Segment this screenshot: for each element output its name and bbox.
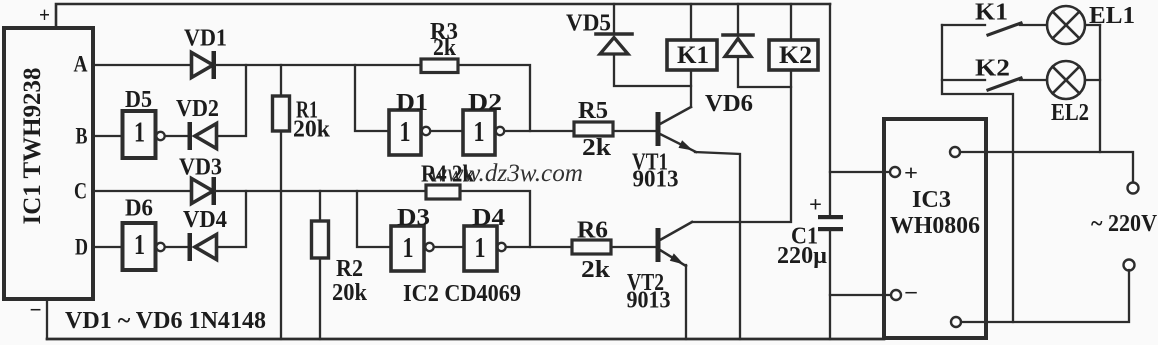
svg-text:D5: D5 xyxy=(125,87,152,113)
inverter D3 xyxy=(391,226,434,271)
svg-text:C: C xyxy=(74,179,87,204)
resistor R4 feedback xyxy=(426,185,460,199)
svg-text:B: B xyxy=(76,124,88,149)
diode VD6 xyxy=(723,4,791,87)
IC1 U1 TWH9238 box xyxy=(4,28,93,299)
svg-text:VD1: VD1 xyxy=(184,26,227,52)
wire IC3 top output to 220V top terminal xyxy=(960,152,1133,183)
svg-text:VD5: VD5 xyxy=(566,11,611,37)
wire D2 output to R5 xyxy=(505,130,575,132)
resistor R1 xyxy=(273,65,290,339)
terminal IC3 plus xyxy=(890,167,900,177)
resistor R6 xyxy=(572,240,611,254)
wire VT2 emitter down to bottom rail xyxy=(685,265,687,339)
switch K2 xyxy=(942,78,1047,90)
svg-text:WH0806: WH0806 xyxy=(890,213,980,239)
svg-text:1: 1 xyxy=(134,229,145,261)
diode VD3 xyxy=(192,177,217,205)
terminal 220V top xyxy=(1128,183,1139,194)
lamp EL1 xyxy=(1047,6,1085,44)
svg-text:1: 1 xyxy=(400,116,411,148)
terminal IC3 out bottom xyxy=(951,317,961,327)
wire R4 right down to D4 output xyxy=(460,191,530,247)
wire R5 to VT1 base xyxy=(613,130,656,132)
wire C1 node to IC3 minus terminal xyxy=(830,294,891,296)
resistor R2 xyxy=(312,191,329,339)
svg-text:VD3: VD3 xyxy=(179,155,222,181)
svg-text:9013: 9013 xyxy=(627,288,671,314)
svg-text:−: − xyxy=(904,280,918,305)
svg-text:1: 1 xyxy=(474,116,485,148)
svg-text:K1: K1 xyxy=(975,0,1008,26)
wire pin C to VD3 xyxy=(93,190,191,192)
svg-text:D3: D3 xyxy=(397,205,430,231)
svg-text:+: + xyxy=(39,2,50,27)
wire bottom ground rail xyxy=(47,338,884,341)
svg-text:VD4: VD4 xyxy=(183,207,227,233)
svg-text:2k: 2k xyxy=(581,257,611,283)
svg-text:www.dz3w.com: www.dz3w.com xyxy=(430,160,583,187)
svg-text:1: 1 xyxy=(475,232,486,264)
svg-text:20k: 20k xyxy=(293,117,331,143)
terminal IC3 minus xyxy=(891,290,901,300)
wire EL1 to lamp common xyxy=(1085,24,1100,26)
diode VD4 xyxy=(188,233,217,261)
wire pin B to D5 input xyxy=(93,135,122,137)
svg-text:−: − xyxy=(30,297,42,322)
wire top positive rail xyxy=(56,4,830,28)
svg-text:VD2: VD2 xyxy=(176,96,219,122)
wire line A down to D1 input xyxy=(355,65,389,131)
svg-text:2k: 2k xyxy=(582,135,612,161)
wire R3 right down to D2 output xyxy=(458,65,530,131)
inverter D2 xyxy=(463,110,504,155)
svg-text:K1: K1 xyxy=(677,42,709,69)
diode VD5 xyxy=(596,4,691,86)
svg-text:IC2 CD4069: IC2 CD4069 xyxy=(403,281,521,307)
svg-text:20k: 20k xyxy=(332,280,368,306)
svg-text:+: + xyxy=(809,192,822,217)
svg-text:9013: 9013 xyxy=(633,167,679,193)
wire switch common down to bottom output wire xyxy=(942,25,1013,322)
svg-text:EL2: EL2 xyxy=(1051,100,1089,126)
svg-text:220µ: 220µ xyxy=(777,243,827,269)
resistor R5 xyxy=(574,122,613,136)
IC3 WH0806 box xyxy=(884,119,986,338)
wire D1 to D2 xyxy=(431,130,464,132)
inverter D4 xyxy=(464,226,506,271)
wire D6 bubble to VD4 xyxy=(165,246,189,248)
wire EL2 to lamp common xyxy=(1085,79,1100,81)
svg-text:R6: R6 xyxy=(577,218,608,244)
svg-text:+: + xyxy=(904,160,918,185)
svg-text:1: 1 xyxy=(403,232,414,264)
wire R6 to VT2 base xyxy=(611,246,656,248)
transistor VT1 xyxy=(656,107,697,152)
svg-text:D6: D6 xyxy=(125,196,153,222)
switch K1 xyxy=(942,23,1047,35)
inverter D6 xyxy=(123,223,165,270)
relay coil K1 xyxy=(667,4,717,70)
wire pin D to D6 input xyxy=(93,246,122,248)
wire C1 node to IC3 plus terminal xyxy=(830,171,890,173)
transistor VT2 xyxy=(656,222,693,266)
diode VD2 xyxy=(188,122,217,150)
inverter D1 xyxy=(389,110,430,155)
wire node C line: VD3 cathode to R4 left xyxy=(215,190,426,192)
lamp EL2 xyxy=(1047,61,1085,99)
svg-text:D: D xyxy=(75,235,88,260)
wire lamp common down to IC3 top output wire xyxy=(1099,25,1101,152)
wire 220V bottom terminal to IC3 bottom output xyxy=(961,270,1129,322)
svg-text:EL1: EL1 xyxy=(1089,3,1135,29)
wire IC1 bottom pin to bottom rail xyxy=(46,299,48,339)
wire junction VD4 output up to line C xyxy=(217,191,246,247)
svg-text:D4: D4 xyxy=(472,205,505,231)
inverter D5 xyxy=(123,111,165,158)
wire VT1 emitter down to bottom rail xyxy=(695,152,740,339)
svg-text:K2: K2 xyxy=(779,42,812,69)
wire D3 to D4 xyxy=(434,246,464,248)
wire node A line: VD1 cathode to R3 left xyxy=(215,64,421,66)
svg-text:2k: 2k xyxy=(433,35,457,61)
terminal IC3 out top xyxy=(950,147,960,157)
svg-text:1: 1 xyxy=(134,117,145,149)
svg-text:A: A xyxy=(74,52,88,77)
svg-text:VD1 ~ VD6 1N4148: VD1 ~ VD6 1N4148 xyxy=(65,308,266,334)
svg-text:IC1 TWH9238: IC1 TWH9238 xyxy=(19,68,46,225)
svg-text:R5: R5 xyxy=(578,98,608,124)
wire K2 bottom down to VT2 collector xyxy=(692,70,791,222)
diode VD1 xyxy=(192,51,217,79)
svg-text:R2: R2 xyxy=(336,256,363,282)
relay coil K2 xyxy=(769,4,818,70)
wire junction VD2 output up to line A xyxy=(217,65,246,136)
resistor R3 feedback xyxy=(421,59,458,73)
wire D5 bubble to VD2 xyxy=(165,135,189,137)
svg-text:D2: D2 xyxy=(468,90,502,116)
svg-text:~ 220V: ~ 220V xyxy=(1091,211,1158,237)
terminal 220V bottom xyxy=(1124,260,1135,271)
wire VT1 collector up to K1 xyxy=(690,70,692,107)
wire pin A to VD1 xyxy=(93,64,191,66)
svg-text:VD6: VD6 xyxy=(705,91,753,117)
wire line C down to D3 input xyxy=(357,191,391,247)
svg-text:D1: D1 xyxy=(396,90,428,116)
svg-text:K2: K2 xyxy=(975,56,1010,82)
wire D4 output to R6 xyxy=(506,246,572,248)
svg-text:IC3: IC3 xyxy=(912,187,951,213)
capacitor C1 xyxy=(818,4,843,339)
